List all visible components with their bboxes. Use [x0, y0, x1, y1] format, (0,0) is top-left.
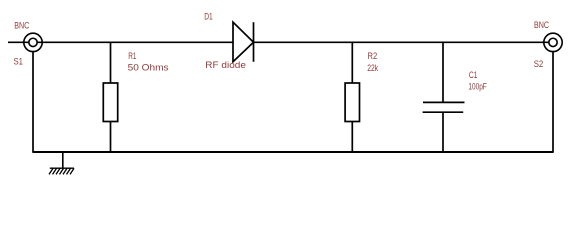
resistor R2 [345, 42, 359, 153]
svg-text:RF diode: RF diode [205, 60, 246, 71]
wire S1 left stub [8, 41, 29, 43]
diode D1 [233, 22, 254, 62]
svg-text:22k: 22k [367, 63, 379, 73]
wire top rail D1 to S2 [254, 41, 549, 43]
svg-text:R1: R1 [128, 51, 137, 61]
svg-text:S1: S1 [14, 56, 24, 67]
svg-text:BNC: BNC [14, 21, 29, 31]
capacitor C1 [423, 42, 465, 153]
svg-text:100pF: 100pF [468, 81, 486, 91]
svg-text:D1: D1 [204, 11, 213, 21]
resistor R1 [103, 42, 117, 153]
wire bottom rail [33, 151, 553, 153]
ground [49, 152, 74, 174]
svg-text:BNC: BNC [534, 20, 549, 30]
connector S1 BNC [24, 33, 42, 51]
svg-text:C1: C1 [469, 70, 478, 80]
wire top rail S1 to D1 [37, 41, 233, 43]
connector S2 BNC [544, 33, 562, 51]
wire S1 down [32, 52, 34, 153]
svg-text:50 Ohms: 50 Ohms [128, 63, 169, 73]
svg-text:S2: S2 [534, 58, 544, 69]
wire S2 down [552, 52, 554, 153]
svg-text:R2: R2 [368, 50, 378, 61]
